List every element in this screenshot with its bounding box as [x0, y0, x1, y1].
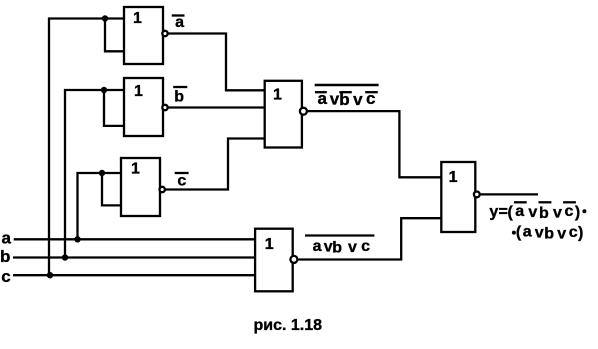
svg-text:): )	[575, 204, 580, 221]
input c label	[1, 267, 10, 286]
node NOT(NOTa or NOTb or NOTc) label	[318, 89, 376, 109]
U3 output bubble	[160, 187, 165, 192]
wire U4 to U6	[308, 111, 442, 177]
svg-text:(: (	[516, 224, 522, 241]
NOR gate U4	[265, 81, 302, 148]
U6 output bubble	[474, 192, 480, 198]
svg-text:1: 1	[133, 10, 142, 27]
output formula label line 1	[489, 203, 580, 222]
overline of b in formula	[539, 201, 552, 203]
wire input b	[13, 256, 256, 258]
svg-text:c: c	[177, 173, 186, 190]
U1 input junction	[102, 15, 108, 21]
svg-text:v: v	[553, 205, 562, 222]
svg-text:1: 1	[134, 83, 143, 100]
overline of U5 label	[305, 234, 374, 236]
svg-text:c: c	[565, 203, 574, 220]
svg-text:v: v	[528, 204, 537, 221]
svg-text:v: v	[353, 90, 363, 109]
svg-text:b: b	[174, 89, 184, 106]
overline of a in U4 label	[315, 91, 327, 93]
input a label	[2, 228, 12, 247]
svg-text:v: v	[535, 225, 544, 242]
output formula label line 2	[516, 224, 583, 243]
U2 input junction	[101, 87, 107, 93]
svg-text:b: b	[539, 205, 549, 222]
svg-text:b: b	[544, 226, 554, 243]
outer overline of U4 label	[315, 84, 379, 87]
overline of b in U4 label	[339, 91, 352, 93]
node NOT(a or b or c) label	[313, 238, 371, 257]
svg-text:рис. 1.18: рис. 1.18	[254, 317, 323, 334]
multiply dot line 2	[512, 231, 516, 235]
wire U3 to U4	[166, 139, 265, 190]
wire a to U3	[78, 173, 123, 239]
svg-text:b: b	[332, 240, 342, 257]
svg-text:): )	[578, 225, 583, 242]
overline of c in U4 label	[365, 91, 378, 93]
NOR gate U5	[255, 229, 293, 292]
U1 output bubble	[162, 31, 167, 36]
svg-text:y: y	[489, 203, 498, 220]
junction on a	[74, 236, 80, 242]
svg-text:1: 1	[131, 161, 140, 178]
overline of a in formula	[514, 201, 527, 203]
wire b to U2	[65, 90, 125, 258]
overline of b	[173, 86, 187, 88]
U2 output bubble	[162, 105, 167, 110]
svg-text:v: v	[348, 239, 357, 256]
svg-text:a: a	[515, 203, 524, 220]
U3 input tie loop	[102, 173, 122, 205]
svg-text:1: 1	[273, 87, 282, 104]
wire U2 to U4	[168, 106, 265, 108]
inverter U1	[124, 7, 163, 64]
svg-text:v: v	[557, 225, 566, 242]
inverter U3	[121, 158, 160, 216]
wire input c	[13, 274, 256, 276]
wire input a	[14, 238, 256, 240]
wire c to U1	[49, 19, 125, 276]
multiply dot line 1	[582, 209, 586, 213]
inverter U2	[124, 78, 163, 136]
svg-text:=: =	[499, 203, 508, 220]
NOR gate U6	[441, 162, 475, 232]
svg-text:c: c	[569, 224, 578, 241]
junction on b	[62, 254, 68, 260]
svg-text:c: c	[361, 238, 370, 255]
overline of a	[172, 14, 185, 16]
wire U5 to U6	[299, 218, 442, 259]
node NOT-c label	[177, 173, 186, 190]
svg-text:1: 1	[265, 236, 274, 253]
wire U1 to U4	[168, 34, 265, 91]
caption fig 1.18	[254, 317, 323, 334]
U4 output bubble	[300, 108, 307, 115]
wire output y	[481, 193, 538, 195]
svg-text:a: a	[523, 224, 532, 241]
overline of c	[175, 172, 189, 174]
junction on c	[47, 272, 53, 278]
svg-text:v: v	[330, 90, 340, 109]
svg-text:c: c	[1, 267, 10, 286]
U1 input tie loop	[105, 19, 125, 52]
U3 input junction	[99, 170, 105, 176]
svg-text:a: a	[313, 238, 322, 255]
input b label	[0, 247, 10, 266]
svg-text:(: (	[508, 204, 514, 221]
overline of c in formula	[563, 201, 576, 203]
svg-text:1: 1	[449, 169, 458, 186]
svg-text:b: b	[0, 247, 10, 266]
svg-text:a: a	[2, 228, 12, 247]
U5 output bubble	[290, 256, 297, 263]
U2 input tie loop	[104, 90, 125, 126]
node NOT-a label	[175, 14, 184, 31]
node NOT-b label	[174, 89, 184, 106]
